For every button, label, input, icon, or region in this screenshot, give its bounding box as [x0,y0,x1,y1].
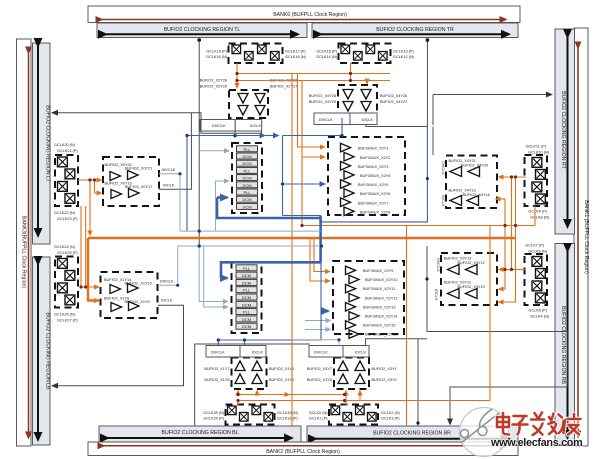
svg-text:GCLK16 (N): GCLK16 (N) [285,55,307,59]
BUFIO2 group TL-mid (down-pointing triangles) [200,79,297,132]
svg-text:BUFIO2_X3Y6: BUFIO2_X3Y6 [307,378,332,382]
svg-text:BUFIO2 CLOCKING REGION TR: BUFIO2 CLOCKING REGION TR [376,27,454,33]
wire BL cluster enclosure [195,344,310,426]
svg-text:BUFIO2 CLOCKING REGION BL: BUFIO2 CLOCKING REGION BL [162,430,239,436]
wire orange LB group feeds [81,206,99,287]
wire TR-mid IOCLK loop to TR bar [366,40,433,156]
wire orange top bus [237,63,390,88]
BANK3 left bar [17,39,32,446]
svg-text:PLL: PLL [243,310,251,315]
svg-text:PLL: PLL [243,288,251,293]
svg-text:DIVCLK: DIVCLK [212,124,226,128]
BUFIO2 CLOCKING REGION TR bar [312,23,518,38]
svg-text:BUFIO2_X4Y29: BUFIO2_X4Y29 [309,100,336,104]
GCLK group left-top [54,143,78,221]
svg-text:GCLK4 (N): GCLK4 (N) [530,315,550,319]
svg-text:BANK0 (BUFPLL Clock Region): BANK0 (BUFPLL Clock Region) [273,12,347,18]
BUFIO2 group BL (up-pointing triangles) [204,346,294,390]
svg-text:BUFIO2_X4Y26: BUFIO2_X4Y26 [380,94,407,98]
GCLK group bottom-right [309,405,401,425]
GCLK group right-top [525,145,550,220]
BUFIO2 group LT (left-top, right-pointing triangles) [103,157,176,206]
svg-text:DCM: DCM [242,161,251,166]
svg-text:BUFIO2_X4Y18: BUFIO2_X4Y18 [463,193,490,197]
svg-text:BUFGMUX_X2Y6: BUFGMUX_X2Y6 [360,192,390,196]
svg-text:GCLK26 (N): GCLK26 (N) [54,313,76,317]
svg-text:DCM: DCM [242,317,251,322]
svg-text:GCLK24 (N): GCLK24 (N) [54,245,76,249]
svg-text:IOCLK: IOCLK [355,351,367,355]
BUFIO2 CLOCKING REGION LT bar [33,43,51,244]
svg-text:DCM: DCM [242,176,251,181]
svg-text:PLL: PLL [243,190,251,195]
wire blue RT DIVCLK link [321,127,428,222]
svg-text:BUFIO2 CLOCKING REGION RT: BUFIO2 CLOCKING REGION RT [560,91,566,169]
svg-text:BANK3(BUFPLL Clock Region): BANK3(BUFPLL Clock Region) [21,216,27,288]
svg-text:BUFGMUX_X2Y12: BUFGMUX_X2Y12 [365,296,398,300]
svg-text:IOCLK: IOCLK [250,124,262,128]
BANK1 right bar [574,28,589,446]
wire orange right mid vertical [406,226,408,426]
svg-text:BUFIO2_X1Y9: BUFIO2_X1Y9 [125,300,150,304]
svg-text:GCLK25 (P): GCLK25 (P) [57,251,78,255]
svg-text:GCLK13 (P): GCLK13 (P) [393,50,414,54]
CMT lower (PLL/DCM) [232,262,262,333]
svg-text:DIVCLK: DIVCLK [160,280,174,284]
svg-text:IOCLK: IOCLK [434,289,438,301]
BUFIO2 CLOCKING REGION RB bar [555,244,575,446]
GCLK group left-bottom [54,245,78,323]
wire orange center vertical [291,74,293,426]
svg-text:BUFIO2 CLOCKING REGION LT: BUFIO2 CLOCKING REGION LT [45,105,51,182]
svg-text:BUFGMUX_X2Y3: BUFGMUX_X2Y3 [358,165,388,169]
svg-text:DIVCLK: DIVCLK [314,351,328,355]
wire orange BUFGMUX bottom feeds [310,238,330,281]
svg-text:GCLK18 (N): GCLK18 (N) [206,55,228,59]
svg-text:GCLK23 (P): GCLK23 (P) [57,217,78,221]
svg-text:GCLK0 (N): GCLK0 (N) [309,411,329,415]
svg-text:DIVCLK: DIVCLK [319,118,333,122]
svg-text:GCLK14 (N): GCLK14 (N) [316,55,338,59]
svg-text:GCLK3 (P): GCLK3 (P) [381,417,400,421]
svg-text:DIVCLK: DIVCLK [441,161,445,175]
svg-text:BUFIO2_X0Y17: BUFIO2_X0Y17 [125,185,152,189]
svg-text:GCLK11 (P): GCLK11 (P) [526,145,547,149]
GCLK group right-bottom [525,244,550,319]
svg-text:PLL: PLL [243,266,251,271]
svg-text:BUFGMUX_X2Y9: BUFGMUX_X2Y9 [363,269,393,273]
GCLK group top-right [316,44,415,64]
svg-text:BUFGMUX_X2Y15: BUFGMUX_X2Y15 [363,324,396,328]
svg-text:BUFGMUX_X2Y10: BUFGMUX_X2Y10 [365,278,398,282]
BUFGMUX group top U-top [328,137,405,216]
wire orange right verticals [490,177,526,401]
BUFGMUX group bottom [333,261,404,338]
svg-text:GCLK7 (P): GCLK7 (P) [525,244,544,248]
wire blue BUFGMUX top input column [187,118,342,231]
svg-text:BUFIO2_X3Y0: BUFIO2_X3Y0 [372,378,397,382]
svg-text:DCM: DCM [242,204,251,209]
BANK0 top bar [88,6,520,23]
svg-text:BUFGMUX_X2Y1: BUFGMUX_X2Y1 [358,147,388,151]
svg-text:DCM: DCM [242,197,251,202]
svg-text:BUFIO2_X3Y13: BUFIO2_X3Y13 [444,257,471,261]
svg-text:DCM: DCM [242,183,251,188]
svg-text:BUFGMUX_X2Y14: BUFGMUX_X2Y14 [365,315,398,319]
svg-text:BUFIO2_X4Y27: BUFIO2_X4Y27 [380,100,407,104]
wire steel LT DIVCLK net [159,174,321,231]
svg-text:DIVCLK: DIVCLK [162,168,176,172]
BUFIO2 group LB (left-bottom) [101,272,175,318]
wire steel LB DIVCLK net [158,246,322,285]
svg-text:BUFIO2 CLOCKING REGION RB: BUFIO2 CLOCKING REGION RB [560,306,566,384]
svg-text:DCM: DCM [242,273,251,278]
CMT upper (PLL/DCM) [232,143,262,213]
svg-text:BANK2 (BUFPLL Clock Region): BANK2 (BUFPLL Clock Region) [266,449,340,455]
wire steel CMT upper thin feeds [199,151,229,307]
wire right enclosure from TR to RT bar [433,95,552,126]
svg-text:GCLK22 (N): GCLK22 (N) [54,211,76,215]
svg-text:GCLK12 (N): GCLK12 (N) [393,55,415,59]
wire LT IOCLK loop to LT bar [52,40,262,247]
svg-text:GCLK20 (N): GCLK20 (N) [54,143,76,147]
svg-text:DCM: DCM [242,154,251,159]
svg-text:BUFIO2_X1Y0: BUFIO2_X1Y0 [269,378,294,382]
svg-text:BUFIO2_X1Y6: BUFIO2_X1Y6 [204,378,229,382]
BUFIO2 CLOCKING REGION BR bar [307,426,518,443]
svg-text:BUFIO2_X3Y1: BUFIO2_X3Y1 [372,367,397,371]
wire orange bottom bus [238,391,490,406]
svg-text:BUFIO2_X3Y11: BUFIO2_X3Y11 [444,281,471,285]
svg-text:IOCLK: IOCLK [161,299,173,303]
BUFIO2 CLOCKING REGION TL bar [97,23,307,38]
svg-text:BUFGMUX_X2Y13: BUFGMUX_X2Y13 [363,305,396,309]
svg-text:BUFIO2_X2Y29: BUFIO2_X2Y29 [200,85,227,89]
svg-text:www.elecfans.com: www.elecfans.com [490,437,582,449]
svg-text:GCLK15 (P): GCLK15 (P) [316,50,337,54]
svg-text:IOCLK: IOCLK [362,118,374,122]
svg-text:DIVCLK: DIVCLK [211,351,225,355]
svg-text:BUFGMUX_X2Y7: BUFGMUX_X2Y7 [358,201,388,205]
wire orange BUFGMUX top feeds [298,74,326,226]
svg-text:DIVCLK: DIVCLK [436,258,440,272]
svg-text:BUFGMUX_X2Y11: BUFGMUX_X2Y11 [363,287,395,291]
BUFIO2 group BR [307,346,397,390]
svg-text:BUFIO2_X4Y20: BUFIO2_X4Y20 [461,164,488,168]
BUFIO2 group RB [434,253,497,305]
svg-text:BUFIO2_X1Y7: BUFIO2_X1Y7 [204,367,229,371]
wire LB IOCLK loop to LB bar [52,305,184,385]
svg-text:PLL: PLL [243,168,251,173]
BUFIO2 CLOCKING REGION RT bar [555,29,575,234]
wire blue BUFGMUX bottom feeds [305,311,331,330]
svg-text:BUFIO2_X4Y19: BUFIO2_X4Y19 [449,189,476,193]
svg-text:GCLK2 (N): GCLK2 (N) [381,411,401,415]
svg-text:DCM: DCM [242,302,251,307]
wire blue lower loop [218,262,321,345]
wire steel BR DIVCLK up-link [292,340,339,346]
svg-text:BUFIO2_X1Y15: BUFIO2_X1Y15 [125,282,152,286]
svg-text:BUFGMUX_X2Y8: BUFGMUX_X2Y8 [360,210,390,214]
svg-text:BUFIO2 CLOCKING REGION BR: BUFIO2 CLOCKING REGION BR [373,431,451,437]
svg-text:BUFIO2_X3Y10: BUFIO2_X3Y10 [458,285,485,289]
wire orange LT group feeds [78,180,102,236]
svg-text:GCLK27 (P): GCLK27 (P) [57,319,78,323]
BUFIO2 CLOCKING REGION LB bar [33,257,51,445]
svg-text:IOCLK: IOCLK [441,195,445,207]
svg-text:GCLK31 (P): GCLK31 (P) [277,417,298,421]
GCLK group top-left [206,44,307,64]
wire RB IOCLK loop to RB bar / BR bar [427,246,567,425]
svg-text:PLL: PLL [243,147,251,152]
svg-text:BUFIO2_X0Y21: BUFIO2_X0Y21 [125,167,152,171]
svg-text:IOCLK: IOCLK [252,351,264,355]
wire BR IOCLK up-link [366,339,428,426]
svg-text:BANK1 (BUFPLL Clock Region): BANK1 (BUFPLL Clock Region) [583,200,589,274]
svg-text:GCLK10 (N): GCLK10 (N) [528,151,550,155]
svg-text:BUFIO2 CLOCKING REGION LB: BUFIO2 CLOCKING REGION LB [45,313,51,391]
svg-text:BUFIO2_X3Y7: BUFIO2_X3Y7 [307,367,332,371]
svg-text:BUFGMUX_X2Y16: BUFGMUX_X2Y16 [365,333,398,337]
svg-text:BUFGMUX_X2Y4: BUFGMUX_X2Y4 [360,174,390,178]
BUFIO2 group TR-mid [309,85,407,125]
svg-text:GCLK19 (P): GCLK19 (P) [206,50,227,54]
BUFIO2 group RT (left-pointing triangles) [441,156,497,209]
svg-text:DCM: DCM [242,295,251,300]
GCLK group bottom-left [203,405,299,425]
svg-text:GCLK30 (N): GCLK30 (N) [277,411,299,415]
svg-text:GCLK1 (P): GCLK1 (P) [309,417,328,421]
svg-text:BUFGMUX_X2Y2: BUFGMUX_X2Y2 [360,156,390,160]
wire blue thick CMT feeds [217,198,321,279]
svg-text:GCLK21 (P): GCLK21 (P) [57,149,78,153]
svg-text:GCLK29 (P): GCLK29 (P) [203,417,224,421]
svg-text:IOCLK: IOCLK [163,184,175,188]
svg-text:DCM: DCM [242,324,251,329]
svg-text:GCLK5 (P): GCLK5 (P) [528,309,547,313]
svg-text:GCLK9 (P): GCLK9 (P) [528,210,547,214]
BANK2 bottom bar [88,442,518,456]
svg-text:BUFIO2_X4Y28: BUFIO2_X4Y28 [309,94,336,98]
svg-text:BUFIO2_X2Y28: BUFIO2_X2Y28 [200,79,227,83]
svg-text:GCLK28 (N): GCLK28 (N) [203,411,225,415]
wire orange mid bus [88,206,535,301]
svg-text:GCLK6 (N): GCLK6 (N) [528,250,548,254]
svg-text:BUFIO2_X1Y1: BUFIO2_X1Y1 [269,367,294,371]
svg-text:BUFIO2_X4Y21: BUFIO2_X4Y21 [449,159,476,163]
svg-text:GCLK17 (P): GCLK17 (P) [285,50,306,54]
svg-text:BUFIO2 CLOCKING REGION TL: BUFIO2 CLOCKING REGION TL [164,27,241,33]
svg-text:GCLK8 (N): GCLK8 (N) [530,216,550,220]
svg-text:DCM: DCM [242,280,251,285]
BUFIO2 CLOCKING REGION BL bar [99,426,301,442]
svg-text:BUFIO2_X3Y12: BUFIO2_X3Y12 [458,261,485,265]
svg-text:BUFGMUX_X2Y5: BUFGMUX_X2Y5 [358,183,388,187]
svg-text:BUFIO2_X2Y27: BUFIO2_X2Y27 [270,85,297,89]
